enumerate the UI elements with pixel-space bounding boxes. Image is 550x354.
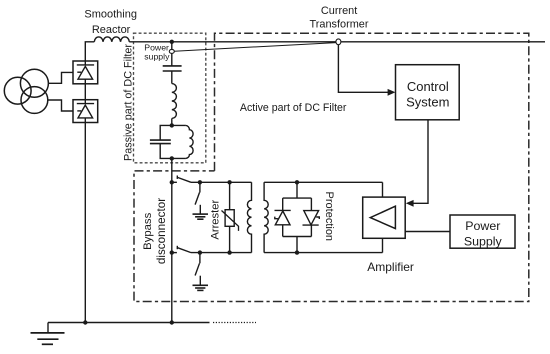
junction dot at valve chain / bottom rail (83, 320, 87, 324)
label Current Transformer (310, 5, 369, 31)
valve V1 diode symbol (77, 61, 94, 84)
svg-text:disconnector: disconnector (155, 198, 168, 264)
current transformer circle on bus (336, 39, 341, 45)
protection sub-frame (283, 182, 312, 252)
junction dot bus/filter tap (170, 40, 174, 44)
wire: protection bottom rail (264, 252, 382, 254)
wire: transformer to upper valve (48, 72, 73, 83)
wire: top DC bus right segment (129, 41, 545, 43)
wire: amplifier to power supply (405, 231, 450, 233)
svg-text:Reactor: Reactor (92, 24, 131, 36)
svg-text:Transformer: Transformer (310, 18, 369, 30)
power supply tap circle (169, 49, 174, 53)
label Power Supply (464, 219, 503, 248)
arrester diagonal stroke (222, 211, 239, 231)
amplifier triangle (370, 206, 395, 228)
inductor L1 (172, 84, 177, 119)
junction dot protection bottom (295, 250, 299, 254)
wire: bottom rail into amplifier (382, 238, 384, 252)
transformer T2 secondary winding (264, 182, 268, 252)
smoothing reactor coil (94, 37, 129, 42)
junction dot protection top (295, 180, 299, 184)
wire: protection top rail (264, 181, 382, 183)
amplifier box U1 (363, 197, 406, 238)
wire: filter chain top (171, 42, 173, 66)
measurement line tap to CT (174, 43, 336, 52)
wire: between valves (84, 84, 86, 100)
label Smoothing Reactor (84, 8, 137, 36)
inductor L2 (right branch of LC block) (186, 125, 194, 158)
svg-text:Arrester: Arrester (209, 200, 221, 240)
valve V2 box (73, 100, 98, 123)
power supply box (450, 215, 515, 248)
disconnector switch S2 (172, 246, 252, 253)
wire: CT to control system (338, 45, 391, 93)
wire: bottom rail dotted continuation (213, 322, 256, 324)
svg-text:Active part of DC Filter: Active part of DC Filter (240, 102, 347, 114)
ground symbol E1 (193, 214, 209, 219)
junction dot arrester bottom (227, 250, 231, 254)
svg-text:Amplifier: Amplifier (367, 260, 414, 274)
svg-text:Power: Power (465, 219, 500, 233)
protection diode D2 (down) (303, 211, 320, 226)
dash-dot boundary: active part of DC filter + bypass disconnector (L-shape) (134, 33, 529, 301)
junction dot S1 on main line (170, 180, 174, 184)
transformer T2 primary winding (247, 182, 251, 252)
junction dot arrester top (227, 180, 231, 184)
arrowhead into control system (388, 89, 396, 96)
ground: station earth (31, 323, 65, 345)
svg-text:Protection: Protection (323, 192, 335, 242)
wire: transformer to lower valve (48, 100, 73, 111)
svg-text:Supply: Supply (464, 235, 503, 249)
svg-text:Smoothing: Smoothing (84, 8, 137, 20)
valve V1 box (73, 61, 98, 84)
arrester branch wire top (229, 182, 231, 209)
label Control System (406, 79, 449, 110)
wire L1 to LC block (171, 118, 173, 125)
svg-text:Bypass: Bypass (142, 212, 154, 249)
junction dot S2 on main line (170, 250, 174, 254)
earthing switch E1 (195, 182, 200, 214)
dashed box: passive part of DC filter (134, 33, 206, 163)
ground symbol E2 (193, 285, 209, 290)
wire: filter chain to bottom rail (171, 158, 173, 322)
wire: valve chain down to bottom rail (84, 123, 86, 323)
junction dot LC bottom (170, 156, 174, 160)
LC block frame: top and bottom rails with left capacitor branch (160, 144, 185, 159)
arrowhead into amplifier (406, 200, 414, 207)
earthing switch E2 (195, 253, 200, 286)
valve V2 diode symbol (77, 100, 94, 123)
capacitor C2 (150, 140, 171, 144)
transformer 3-phase circles (4, 69, 48, 113)
disconnector switch S1 (172, 176, 252, 183)
svg-text:Current: Current (321, 5, 357, 17)
wire: control system to amplifier (410, 120, 428, 204)
protection diode D1 (up) (275, 210, 291, 224)
wire: top DC bus left segment (85, 42, 94, 61)
arrester branch wire bottom (229, 226, 231, 252)
capacitor C1 (163, 66, 182, 71)
wire: top rail into amplifier (382, 182, 384, 197)
label Power supply (144, 42, 170, 61)
junction dot S1 earth tap (198, 180, 202, 184)
arrester box (225, 210, 234, 227)
wire: bottom rail solid (48, 322, 210, 324)
svg-text:Passive part of DC Filter: Passive part of DC Filter (123, 44, 135, 161)
control system box (396, 65, 460, 120)
junction dot LC top (170, 123, 174, 127)
wire C1 to L1 (171, 71, 173, 84)
svg-text:supply: supply (144, 51, 170, 61)
junction dot S2 earth tap (198, 250, 202, 254)
junction dot at filter chain / bottom rail (170, 320, 174, 324)
svg-text:Control: Control (407, 79, 449, 94)
svg-text:System: System (406, 95, 449, 110)
